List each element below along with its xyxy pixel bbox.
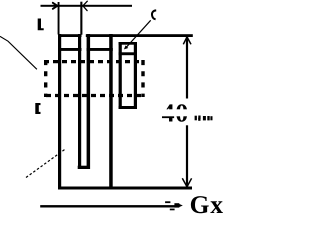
leader line top-left [0,36,37,69]
mu tail blob [198,118,200,121]
right dimension up arrowhead [183,37,191,44]
deep trench outer left wall [58,34,61,190]
top dimension right arrowhead [83,1,87,10]
substrate bottom line [58,187,192,190]
dashed region right edge [141,60,144,97]
dashed region top edge [44,60,145,63]
leader line bottom-left dotted [26,149,66,178]
surface line left segment [58,34,82,37]
label c [152,10,156,19]
m leg 1 [203,116,206,120]
Gx axis lower barb bar [170,209,175,211]
label I [35,103,40,114]
shallow trench cap line [119,52,137,55]
label L [38,19,44,31]
shallow trench bottom [119,106,137,109]
leader arrowhead [124,45,128,49]
extension line left tick [58,2,60,35]
Gx axis upper barb bar [165,201,170,203]
svg-text:Gx: Gx [190,190,224,216]
dashed region bottom edge [44,94,145,97]
dashed region left edge [44,60,47,97]
deep trench outer right wall [109,34,113,189]
m leg 3 [210,116,212,120]
m leg 2 [207,116,209,120]
right dimension down arrowhead [182,178,191,187]
top dimension left arrowhead [53,3,58,9]
deep trench inner right wall [87,34,91,169]
shallow trench top [119,42,137,45]
Gx axis arrowhead [174,203,179,207]
deep trench bottom [78,166,90,169]
deep trench inner left wall [78,34,81,169]
surface line right segment extending to right dimension [86,34,193,37]
top dimension line [41,5,133,7]
shallow trench right wall [134,42,137,109]
mu right leg and tail [198,116,200,120]
extension line right tick [80,2,82,35]
cap layer line right segment [87,48,113,51]
white band erasing middle of 40 [155,109,191,116]
micro m fragments: mu left leg [195,116,197,121]
leader line to cap of shallow trench [126,20,151,48]
cap layer line left segment [58,48,82,51]
Gx axis line [40,205,175,207]
right dimension line upper segment [186,36,188,99]
shallow trench left wall [119,42,122,109]
right dimension line lower segment [186,125,188,187]
